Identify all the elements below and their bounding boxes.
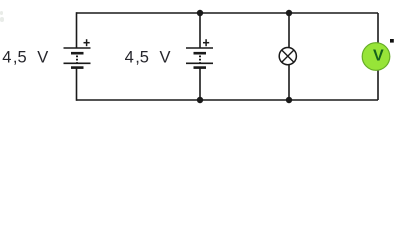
wire middle branch top segment [199, 13, 201, 48]
wire top rail [77, 12, 379, 14]
battery B2 plate short thick bottom [194, 66, 207, 69]
wire middle branch bottom segment [199, 69, 201, 101]
wire right rail [377, 13, 379, 100]
battery B1 plate short thick top [71, 52, 84, 55]
svg-text:4,5V: 4,5V [125, 49, 171, 67]
battery B1 plate long top [64, 47, 91, 49]
battery B2 dotted cell separator [199, 56, 201, 64]
selection handle square [390, 39, 394, 43]
wire bottom rail [77, 99, 379, 101]
voltmeter V1 body [362, 43, 390, 71]
battery B1 plate short thick bottom [71, 66, 84, 69]
battery B1 plus sign [84, 39, 90, 46]
wire lamp branch bottom segment [288, 65, 290, 101]
faint edge artifact [0, 11, 4, 22]
svg-text:V: V [373, 48, 384, 65]
battery B2 plus sign [203, 39, 209, 46]
junction dot top-lamp [286, 10, 292, 16]
junction dot bottom-lamp [286, 97, 292, 103]
wire lamp branch top segment [288, 13, 290, 48]
junction dot bottom-middle [197, 97, 203, 103]
wire left branch bottom segment [76, 69, 78, 101]
battery B1 dotted cell separator [76, 56, 78, 64]
battery B1 plate long bottom [64, 62, 91, 64]
svg-text:4,5V: 4,5V [2, 49, 48, 67]
junction dot top-middle [197, 10, 203, 16]
battery B2 plate short thick top [194, 52, 207, 55]
lamp L1 cross [282, 50, 294, 62]
lamp L1 circle [279, 48, 296, 65]
wire left branch top segment [76, 12, 78, 48]
battery B2 plate long bottom [186, 62, 213, 64]
battery B2 plate long top [186, 47, 213, 49]
